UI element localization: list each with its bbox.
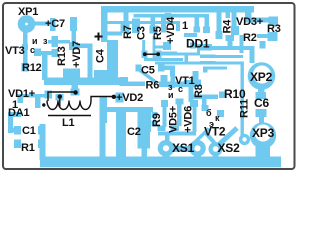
svg-text:VD3+: VD3+ [236, 16, 263, 28]
svg-text:C4: C4 [95, 48, 107, 63]
svg-text:к: к [215, 113, 220, 123]
svg-text:R8: R8 [193, 84, 205, 98]
svg-text:R5: R5 [152, 26, 164, 40]
svg-text:R11: R11 [239, 99, 251, 118]
svg-text:б: б [206, 108, 212, 118]
svg-text:R12: R12 [22, 62, 42, 74]
svg-text:L1: L1 [62, 117, 75, 129]
svg-text:XP3: XP3 [252, 126, 275, 140]
svg-text:+C7: +C7 [45, 18, 65, 30]
svg-text:+VD6: +VD6 [183, 106, 195, 133]
svg-text:R7: R7 [122, 25, 134, 39]
svg-text:R13: R13 [56, 46, 68, 66]
svg-text:C3: C3 [136, 26, 148, 40]
svg-text:XP1: XP1 [18, 6, 38, 18]
svg-text:C2: C2 [127, 126, 141, 138]
svg-text:C5: C5 [141, 65, 155, 77]
svg-text:э: э [209, 119, 214, 129]
svg-text:DD1: DD1 [186, 37, 210, 51]
svg-text:R9: R9 [151, 113, 163, 127]
svg-text:+VD4: +VD4 [165, 16, 177, 44]
svg-text:DA1: DA1 [8, 107, 29, 119]
svg-text:VT2: VT2 [204, 125, 226, 139]
svg-text:R2: R2 [243, 32, 257, 44]
svg-text:с: с [178, 84, 183, 94]
svg-text:и: и [168, 90, 174, 100]
svg-text:VT3: VT3 [5, 45, 25, 57]
svg-text:R4: R4 [222, 19, 234, 34]
svg-text:1: 1 [182, 20, 188, 32]
svg-text:XS1: XS1 [172, 141, 195, 155]
svg-text:XS2: XS2 [218, 141, 241, 155]
svg-text:C6: C6 [254, 96, 269, 110]
svg-text:R10: R10 [224, 87, 246, 101]
svg-text:+VD7: +VD7 [71, 41, 83, 68]
svg-text:C1: C1 [22, 125, 36, 137]
svg-text:R3: R3 [267, 23, 281, 35]
svg-text:R6: R6 [146, 80, 160, 92]
svg-text:с: с [30, 45, 35, 55]
svg-text:+VD2: +VD2 [116, 92, 143, 104]
svg-text:VD5+: VD5+ [168, 106, 180, 133]
svg-text:з: з [43, 36, 48, 46]
svg-text:R1: R1 [21, 142, 35, 154]
svg-text:XP2: XP2 [250, 70, 273, 84]
